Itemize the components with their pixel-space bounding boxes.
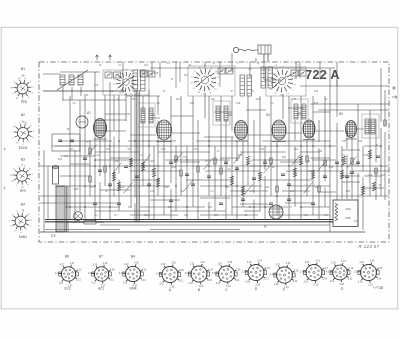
svg-text:4.12: 4.12 bbox=[178, 281, 183, 283]
wire vertical bbox=[225, 120, 227, 219]
wire y100 left bbox=[62, 99, 95, 101]
svg-text:4.22: 4.22 bbox=[270, 274, 275, 276]
svg-text:C52: C52 bbox=[260, 148, 265, 151]
wire antenna to wafer SK3 bbox=[264, 79, 282, 81]
wire coil down 3 bbox=[80, 87, 82, 96]
wire vertical bbox=[43, 150, 45, 232]
resistor R16 bbox=[299, 156, 302, 165]
svg-text:B3: B3 bbox=[228, 113, 232, 117]
wire vertical bbox=[170, 96, 172, 183]
svg-text:4.11: 4.11 bbox=[315, 261, 320, 263]
wire vertical bbox=[231, 96, 233, 131]
wire connector bbox=[110, 157, 130, 159]
svg-text:2.23: 2.23 bbox=[286, 263, 291, 265]
wire run y152 bbox=[158, 151, 210, 153]
wire run y191 bbox=[230, 190, 268, 192]
wire vertical bbox=[380, 128, 382, 196]
wire vertical bbox=[236, 167, 238, 219]
IF can T2 bbox=[138, 103, 155, 127]
tube B4 bbox=[272, 120, 286, 142]
antenna terminal block bbox=[258, 45, 271, 54]
wire vertical bbox=[259, 96, 261, 211]
svg-text:B1: B1 bbox=[21, 67, 25, 71]
wire run y160 bbox=[312, 159, 336, 161]
wire connector bbox=[316, 130, 344, 132]
wire run y180 bbox=[262, 179, 312, 181]
svg-text:2.22: 2.22 bbox=[190, 264, 195, 266]
mark plus right bbox=[392, 86, 397, 99]
wire vertical bbox=[247, 96, 249, 155]
svg-text:4.25: 4.25 bbox=[370, 261, 375, 263]
wire vertical bbox=[247, 161, 249, 186]
wire vertical bbox=[346, 130, 348, 149]
svg-text:3.28: 3.28 bbox=[294, 270, 299, 272]
wire vertical bbox=[99, 138, 101, 176]
wire vertical bbox=[318, 120, 320, 142]
capacitor C72 bbox=[70, 140, 74, 142]
capacitor C2 bbox=[98, 170, 102, 172]
tuning indicator B8 bbox=[269, 205, 283, 219]
wire run y160 bbox=[165, 159, 230, 161]
resistor R20 bbox=[351, 158, 353, 164]
wire vertical bbox=[134, 203, 136, 222]
capacitor C82 bbox=[376, 156, 380, 158]
svg-text:1.19: 1.19 bbox=[155, 274, 160, 276]
junction bbox=[118, 140, 120, 142]
svg-text:R24: R24 bbox=[176, 98, 181, 101]
svg-text:100: 100 bbox=[128, 206, 133, 209]
wire AVC bus bbox=[40, 195, 389, 197]
wire connector bbox=[180, 161, 200, 163]
svg-text:3.14: 3.14 bbox=[184, 273, 189, 275]
resistor R25 bbox=[117, 182, 120, 191]
wire vertical bbox=[231, 137, 233, 215]
capacitor C24 bbox=[311, 203, 315, 205]
resistor R31 bbox=[361, 186, 364, 195]
capacitor C16 bbox=[287, 184, 291, 186]
wire run y152 bbox=[240, 151, 286, 153]
resistor R2 bbox=[104, 166, 106, 172]
wire vertical bbox=[276, 141, 278, 215]
svg-text:4.12: 4.12 bbox=[159, 283, 164, 285]
wire vertical bbox=[351, 138, 353, 199]
padder capacitor P6 bbox=[268, 67, 273, 88]
svg-text:1.15: 1.15 bbox=[265, 268, 270, 270]
resistor R7 bbox=[175, 156, 177, 162]
resistor R3 bbox=[112, 172, 115, 181]
svg-text:C44: C44 bbox=[250, 190, 255, 193]
wire vertical bbox=[294, 146, 296, 207]
svg-text:R33: R33 bbox=[205, 160, 210, 163]
junction bbox=[329, 145, 331, 147]
wire run y207 bbox=[300, 206, 330, 208]
capacitor C26 bbox=[93, 203, 97, 205]
svg-text:D: D bbox=[255, 287, 258, 291]
svg-text:B2: B2 bbox=[151, 113, 155, 117]
wire vertical bbox=[186, 146, 188, 219]
svg-text:1.10: 1.10 bbox=[299, 272, 304, 274]
capacitor C1 bbox=[83, 158, 87, 160]
wire vertical bbox=[180, 96, 182, 196]
svg-text:B4: B4 bbox=[21, 203, 25, 207]
wire run y211 bbox=[170, 210, 226, 212]
svg-text:+ F73B: + F73B bbox=[373, 286, 383, 290]
junction bbox=[236, 185, 238, 187]
wire top drop bbox=[319, 62, 321, 80]
svg-text:C18: C18 bbox=[236, 102, 241, 105]
svg-text:C52: C52 bbox=[368, 174, 373, 177]
wire vertical bbox=[357, 104, 359, 167]
wire vertical bbox=[242, 141, 244, 207]
wire connector bbox=[240, 203, 268, 205]
junction bbox=[380, 145, 382, 147]
margin tick 1 bbox=[3, 148, 6, 151]
trimmer capacitor TC8 bbox=[299, 70, 306, 76]
wire vertical bbox=[214, 146, 216, 211]
trimmer capacitor TC2 bbox=[114, 72, 121, 78]
adjust arrow bbox=[304, 183, 313, 194]
svg-text:2.22: 2.22 bbox=[348, 278, 353, 280]
wire run y203 bbox=[40, 202, 120, 204]
svg-text:4.22: 4.22 bbox=[235, 280, 240, 282]
svg-text:4.13: 4.13 bbox=[326, 272, 331, 274]
svg-text:B3: B3 bbox=[21, 158, 25, 162]
svg-text:1.12: 1.12 bbox=[349, 268, 354, 270]
capacitor C9 bbox=[191, 184, 195, 186]
svg-text:C15: C15 bbox=[154, 73, 159, 75]
junction bbox=[186, 159, 188, 161]
svg-text:EL3: EL3 bbox=[64, 287, 70, 291]
junction bbox=[134, 219, 136, 221]
wire vertical bbox=[89, 140, 91, 196]
wire bus 3 bbox=[100, 224, 330, 226]
capacitor C17 bbox=[323, 176, 327, 178]
resistor R23 bbox=[384, 120, 386, 126]
IF coil L8 bbox=[371, 119, 375, 134]
resistor R13 bbox=[258, 172, 261, 181]
svg-text:C12: C12 bbox=[144, 214, 149, 217]
wire vertical bbox=[192, 96, 194, 207]
svg-text:3.15: 3.15 bbox=[207, 280, 212, 282]
svg-text:R36: R36 bbox=[256, 98, 261, 101]
svg-text:1.25: 1.25 bbox=[331, 263, 336, 265]
svg-text:2.18: 2.18 bbox=[241, 272, 246, 274]
wire connector bbox=[130, 134, 156, 136]
wire vertical bbox=[122, 62, 124, 93]
wire vertical bbox=[175, 146, 177, 211]
adjust arrow bbox=[292, 155, 301, 166]
adjust arrow bbox=[184, 181, 193, 192]
wire connector bbox=[172, 132, 200, 134]
wire HT bus bbox=[45, 219, 333, 221]
svg-text:EF9: EF9 bbox=[20, 189, 26, 193]
junction bbox=[109, 145, 111, 147]
wire vertical bbox=[357, 173, 359, 226]
wire vertical bbox=[142, 96, 144, 114]
junction bbox=[175, 159, 177, 161]
switch wafer SK3 bbox=[268, 67, 297, 96]
svg-text:C12: C12 bbox=[120, 186, 125, 189]
svg-text:1.24: 1.24 bbox=[208, 269, 213, 271]
svg-text:4M7: 4M7 bbox=[165, 186, 170, 189]
wire vertical bbox=[329, 68, 331, 232]
socket B6 bbox=[55, 263, 82, 287]
wire connector bbox=[342, 181, 360, 183]
wire run y191 bbox=[282, 190, 310, 192]
resistor R28 bbox=[241, 186, 244, 195]
wire vertical bbox=[300, 96, 302, 219]
capacitor C5 bbox=[135, 176, 139, 178]
svg-text:4.22: 4.22 bbox=[274, 284, 279, 286]
padder capacitor P5 bbox=[261, 67, 266, 88]
resistor R17 bbox=[311, 170, 314, 179]
svg-text:R24: R24 bbox=[282, 156, 287, 159]
wire vertical bbox=[208, 96, 210, 196]
svg-text:300: 300 bbox=[306, 160, 311, 163]
junction bbox=[288, 195, 290, 197]
coil adjust arrow bbox=[57, 70, 88, 90]
wire run y211 bbox=[95, 210, 150, 212]
junction bbox=[148, 140, 150, 142]
wire bus y146 bbox=[55, 145, 336, 147]
svg-text:3.25: 3.25 bbox=[179, 270, 184, 272]
svg-text:1M: 1M bbox=[271, 166, 274, 169]
wire vertical bbox=[264, 146, 266, 170]
svg-text:C38: C38 bbox=[106, 148, 111, 151]
socket F bbox=[270, 263, 299, 289]
svg-text:S12: S12 bbox=[184, 75, 189, 77]
svg-text:V20: V20 bbox=[346, 207, 351, 211]
capacitor C71 bbox=[58, 140, 62, 142]
antenna pickup loop bbox=[233, 47, 257, 52]
wire to aerial coils bbox=[43, 73, 60, 75]
wire vertical bbox=[104, 95, 106, 186]
junction bbox=[186, 206, 188, 208]
wire run y180 bbox=[186, 179, 232, 181]
wire vertical bbox=[375, 168, 377, 200]
wire vertical bbox=[324, 96, 326, 181]
svg-text:C23: C23 bbox=[381, 174, 386, 177]
wire run y207 bbox=[232, 206, 288, 208]
svg-text:3.21: 3.21 bbox=[330, 281, 335, 283]
wire connector bbox=[285, 202, 312, 204]
padder capacitor P1 bbox=[133, 70, 138, 91]
wire vertical bbox=[306, 139, 308, 196]
wire vertical bbox=[134, 90, 136, 197]
capacitor C28 bbox=[287, 199, 291, 201]
wire vertical bbox=[84, 96, 86, 219]
wire run y160 bbox=[252, 159, 300, 161]
IF coil L3 bbox=[216, 106, 220, 121]
tube B3 bbox=[235, 121, 248, 142]
wire earth down-lead bbox=[267, 54, 269, 62]
wire connector bbox=[200, 197, 230, 199]
resistor R21 bbox=[368, 150, 371, 159]
tube base diagram B2 base bbox=[12, 122, 36, 145]
adjust arrow bbox=[204, 159, 213, 170]
wire vertical bbox=[142, 120, 144, 186]
resistor R14 bbox=[270, 158, 272, 164]
svg-text:C44: C44 bbox=[324, 214, 329, 217]
resistor R1 bbox=[89, 148, 91, 154]
svg-text:4M7: 4M7 bbox=[214, 214, 219, 217]
junction bbox=[236, 159, 238, 161]
capacitor C3 bbox=[108, 184, 112, 186]
svg-text:2.18: 2.18 bbox=[339, 284, 344, 286]
svg-text:P48: P48 bbox=[346, 216, 351, 220]
svg-text:100: 100 bbox=[183, 156, 188, 159]
switch wafer SK2 bbox=[190, 66, 220, 95]
padder capacitor P4 bbox=[247, 75, 252, 96]
wire run y215 bbox=[130, 214, 178, 216]
wire vertical bbox=[170, 189, 172, 219]
wire top drop bbox=[299, 62, 301, 78]
svg-text:1.25: 1.25 bbox=[275, 265, 280, 267]
svg-text:EM4: EM4 bbox=[130, 287, 137, 291]
wire run y207 bbox=[140, 206, 205, 208]
wire vertical bbox=[336, 80, 338, 117]
svg-text:1M: 1M bbox=[156, 102, 159, 105]
svg-text:4.21: 4.21 bbox=[200, 262, 205, 264]
svg-text:1M: 1M bbox=[378, 184, 381, 187]
capacitor C25 bbox=[117, 203, 121, 205]
resistor R48 bbox=[335, 203, 338, 221]
junction bbox=[175, 185, 177, 187]
svg-text:AZ1: AZ1 bbox=[98, 287, 104, 291]
wire connector bbox=[342, 149, 360, 151]
junction bbox=[84, 206, 86, 208]
wire vertical bbox=[253, 200, 255, 219]
svg-text:2.17: 2.17 bbox=[264, 279, 269, 281]
resistor R10 bbox=[220, 168, 222, 174]
wire vertical bbox=[163, 141, 165, 215]
svg-text:1.12: 1.12 bbox=[124, 264, 129, 266]
capacitor C81 bbox=[350, 172, 354, 174]
wire vertical bbox=[157, 121, 159, 196]
trimmer capacitor TC6 bbox=[226, 68, 233, 74]
wire connector bbox=[60, 155, 95, 157]
wire connector bbox=[313, 111, 330, 113]
wire run y211 bbox=[244, 210, 260, 212]
wire vertical bbox=[94, 72, 96, 222]
wire run y141 bbox=[128, 140, 176, 142]
svg-text:3.20: 3.20 bbox=[171, 263, 176, 265]
IF coil L2 bbox=[149, 108, 153, 123]
svg-text:2.13: 2.13 bbox=[314, 285, 319, 287]
wire vertical bbox=[288, 96, 290, 219]
svg-text:3.27: 3.27 bbox=[70, 263, 75, 265]
wire run y207 bbox=[65, 206, 120, 208]
svg-text:ECH3: ECH3 bbox=[19, 146, 28, 150]
wire vertical bbox=[264, 176, 266, 219]
svg-text:3.10: 3.10 bbox=[247, 262, 252, 264]
svg-text:1.28: 1.28 bbox=[88, 273, 93, 275]
adjust arrow bbox=[264, 163, 273, 174]
wire vertical bbox=[153, 146, 155, 169]
junction bbox=[208, 165, 210, 167]
junction bbox=[109, 165, 111, 167]
wire HT return bus bbox=[45, 221, 333, 223]
wire connector bbox=[318, 191, 336, 193]
chassis dashed boundary bbox=[39, 62, 389, 242]
wire connector bbox=[220, 157, 240, 159]
junction bbox=[84, 185, 86, 187]
svg-text:C27: C27 bbox=[194, 148, 199, 151]
socket B4b bbox=[119, 263, 147, 288]
junction bbox=[109, 206, 111, 208]
resistor R32 bbox=[306, 156, 308, 162]
junction bbox=[94, 159, 96, 161]
svg-text:2.24: 2.24 bbox=[322, 279, 327, 281]
padder capacitor P2 bbox=[141, 70, 146, 91]
svg-text:1.15: 1.15 bbox=[236, 269, 241, 271]
svg-text:C61: C61 bbox=[294, 148, 299, 151]
wire run y186 bbox=[55, 185, 96, 187]
wire vertical bbox=[99, 182, 101, 219]
svg-text:2M: 2M bbox=[225, 186, 228, 189]
junction bbox=[94, 219, 96, 221]
svg-text:C27: C27 bbox=[168, 206, 173, 209]
wire run y152 bbox=[95, 151, 140, 153]
wire run y171 bbox=[205, 170, 260, 172]
capacitor C20 bbox=[356, 162, 360, 164]
tube base diagram B3 base bbox=[10, 166, 33, 189]
resistor R6 bbox=[152, 168, 155, 177]
wire vertical bbox=[324, 187, 326, 207]
wire vertical bbox=[231, 53, 233, 62]
wire vertical bbox=[69, 96, 71, 219]
wire vertical bbox=[384, 132, 386, 200]
wire vertical bbox=[362, 177, 364, 230]
capacitor C8 bbox=[185, 174, 189, 176]
wire vertical bbox=[79, 100, 81, 211]
wire vertical bbox=[204, 93, 206, 118]
svg-text:3.14: 3.14 bbox=[293, 281, 298, 283]
wire top drop bbox=[175, 62, 177, 88]
mains transformer T1 bbox=[56, 186, 68, 232]
wire connector bbox=[100, 189, 130, 191]
resistor R15 bbox=[293, 168, 296, 177]
wire vertical bbox=[375, 119, 377, 162]
wire y86 right bbox=[300, 85, 389, 87]
adjust arrow bbox=[88, 145, 97, 156]
shield box S1 bbox=[103, 70, 149, 95]
resistor R62 bbox=[372, 182, 375, 191]
svg-text:C: C bbox=[225, 288, 228, 292]
wire connector bbox=[95, 119, 126, 121]
svg-text:4.27: 4.27 bbox=[60, 264, 65, 266]
svg-text:3.14: 3.14 bbox=[123, 283, 128, 285]
svg-text:B4: B4 bbox=[266, 113, 270, 117]
wire connector bbox=[204, 136, 234, 138]
resistor R24 bbox=[89, 176, 91, 182]
wire run y229.5 bbox=[45, 229, 120, 231]
adjust arrow bbox=[174, 153, 183, 164]
svg-text:C61: C61 bbox=[190, 102, 195, 105]
wire connector bbox=[288, 107, 304, 109]
capacitor C27 bbox=[241, 199, 245, 201]
adjust arrow bbox=[348, 157, 357, 168]
resistor R5 bbox=[141, 162, 144, 171]
svg-text:G: G bbox=[341, 287, 344, 291]
svg-text:PP6: PP6 bbox=[21, 100, 27, 104]
junction bbox=[208, 145, 210, 147]
junction bbox=[341, 165, 343, 167]
svg-text:2.21: 2.21 bbox=[76, 280, 81, 282]
wire bus y166 bbox=[40, 165, 389, 167]
wire vertical bbox=[130, 96, 132, 207]
wire vertical bbox=[197, 120, 199, 219]
